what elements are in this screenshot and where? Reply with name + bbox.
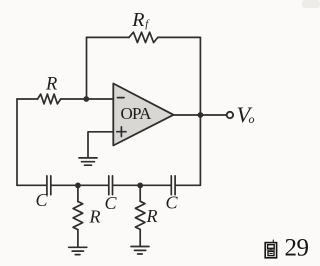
wire right rail lower vertical xyxy=(199,115,201,185)
ground op-amp xyxy=(79,157,97,159)
resistor R series xyxy=(38,94,61,104)
capacitor C2 xyxy=(109,176,113,195)
node D junction dot xyxy=(137,183,143,189)
svg-text:R: R xyxy=(45,75,57,95)
wire feedback left vertical xyxy=(86,37,88,99)
ground R1 xyxy=(69,246,87,248)
wire feedback right vertical xyxy=(199,37,201,115)
wire series input left xyxy=(17,98,38,100)
svg-text:C: C xyxy=(166,193,179,213)
svg-text:R: R xyxy=(131,9,144,31)
wire shunt R2 bottom stub xyxy=(139,229,141,246)
wire bottom rail seg4 xyxy=(176,184,200,186)
capacitor C1 xyxy=(47,176,51,195)
wire top feedback left segment xyxy=(87,36,130,38)
wire series input right to op-amp xyxy=(61,98,114,100)
node A junction dot xyxy=(83,96,89,102)
output terminal circle xyxy=(227,112,233,118)
ground R2 xyxy=(131,246,149,248)
svg-text:o: o xyxy=(249,112,255,126)
wire shunt R2 top stub xyxy=(139,185,141,201)
caption glyph 圖 (drawn) xyxy=(265,240,276,258)
op-amp plus sign xyxy=(117,127,126,137)
node output junction dot xyxy=(198,112,204,118)
wire shunt R1 top stub xyxy=(77,185,79,201)
wire top feedback right segment xyxy=(158,36,201,38)
svg-text:29: 29 xyxy=(285,235,309,262)
wire plus input xyxy=(88,132,113,158)
svg-text:OPA: OPA xyxy=(121,104,153,123)
wire shunt R1 bottom stub xyxy=(77,230,79,247)
wire left rail vertical xyxy=(16,99,18,185)
op-amp U1 xyxy=(113,84,173,146)
wire bottom rail seg3 xyxy=(114,184,171,186)
wire bottom rail seg1 xyxy=(17,184,46,186)
wire output xyxy=(174,114,227,116)
resistor R2 shunt xyxy=(135,201,145,229)
svg-text:R: R xyxy=(89,207,101,227)
scan smudge top-right corner xyxy=(302,0,320,8)
svg-text:R: R xyxy=(146,206,158,226)
node B junction dot xyxy=(75,183,81,189)
resistor R1 shunt xyxy=(73,202,83,230)
wire bottom rail seg2 xyxy=(52,184,108,186)
svg-text:C: C xyxy=(105,193,118,213)
resistor Rf xyxy=(129,32,158,42)
svg-text:C: C xyxy=(36,190,49,210)
op-amp minus sign xyxy=(118,97,125,99)
capacitor C3 xyxy=(171,176,175,195)
